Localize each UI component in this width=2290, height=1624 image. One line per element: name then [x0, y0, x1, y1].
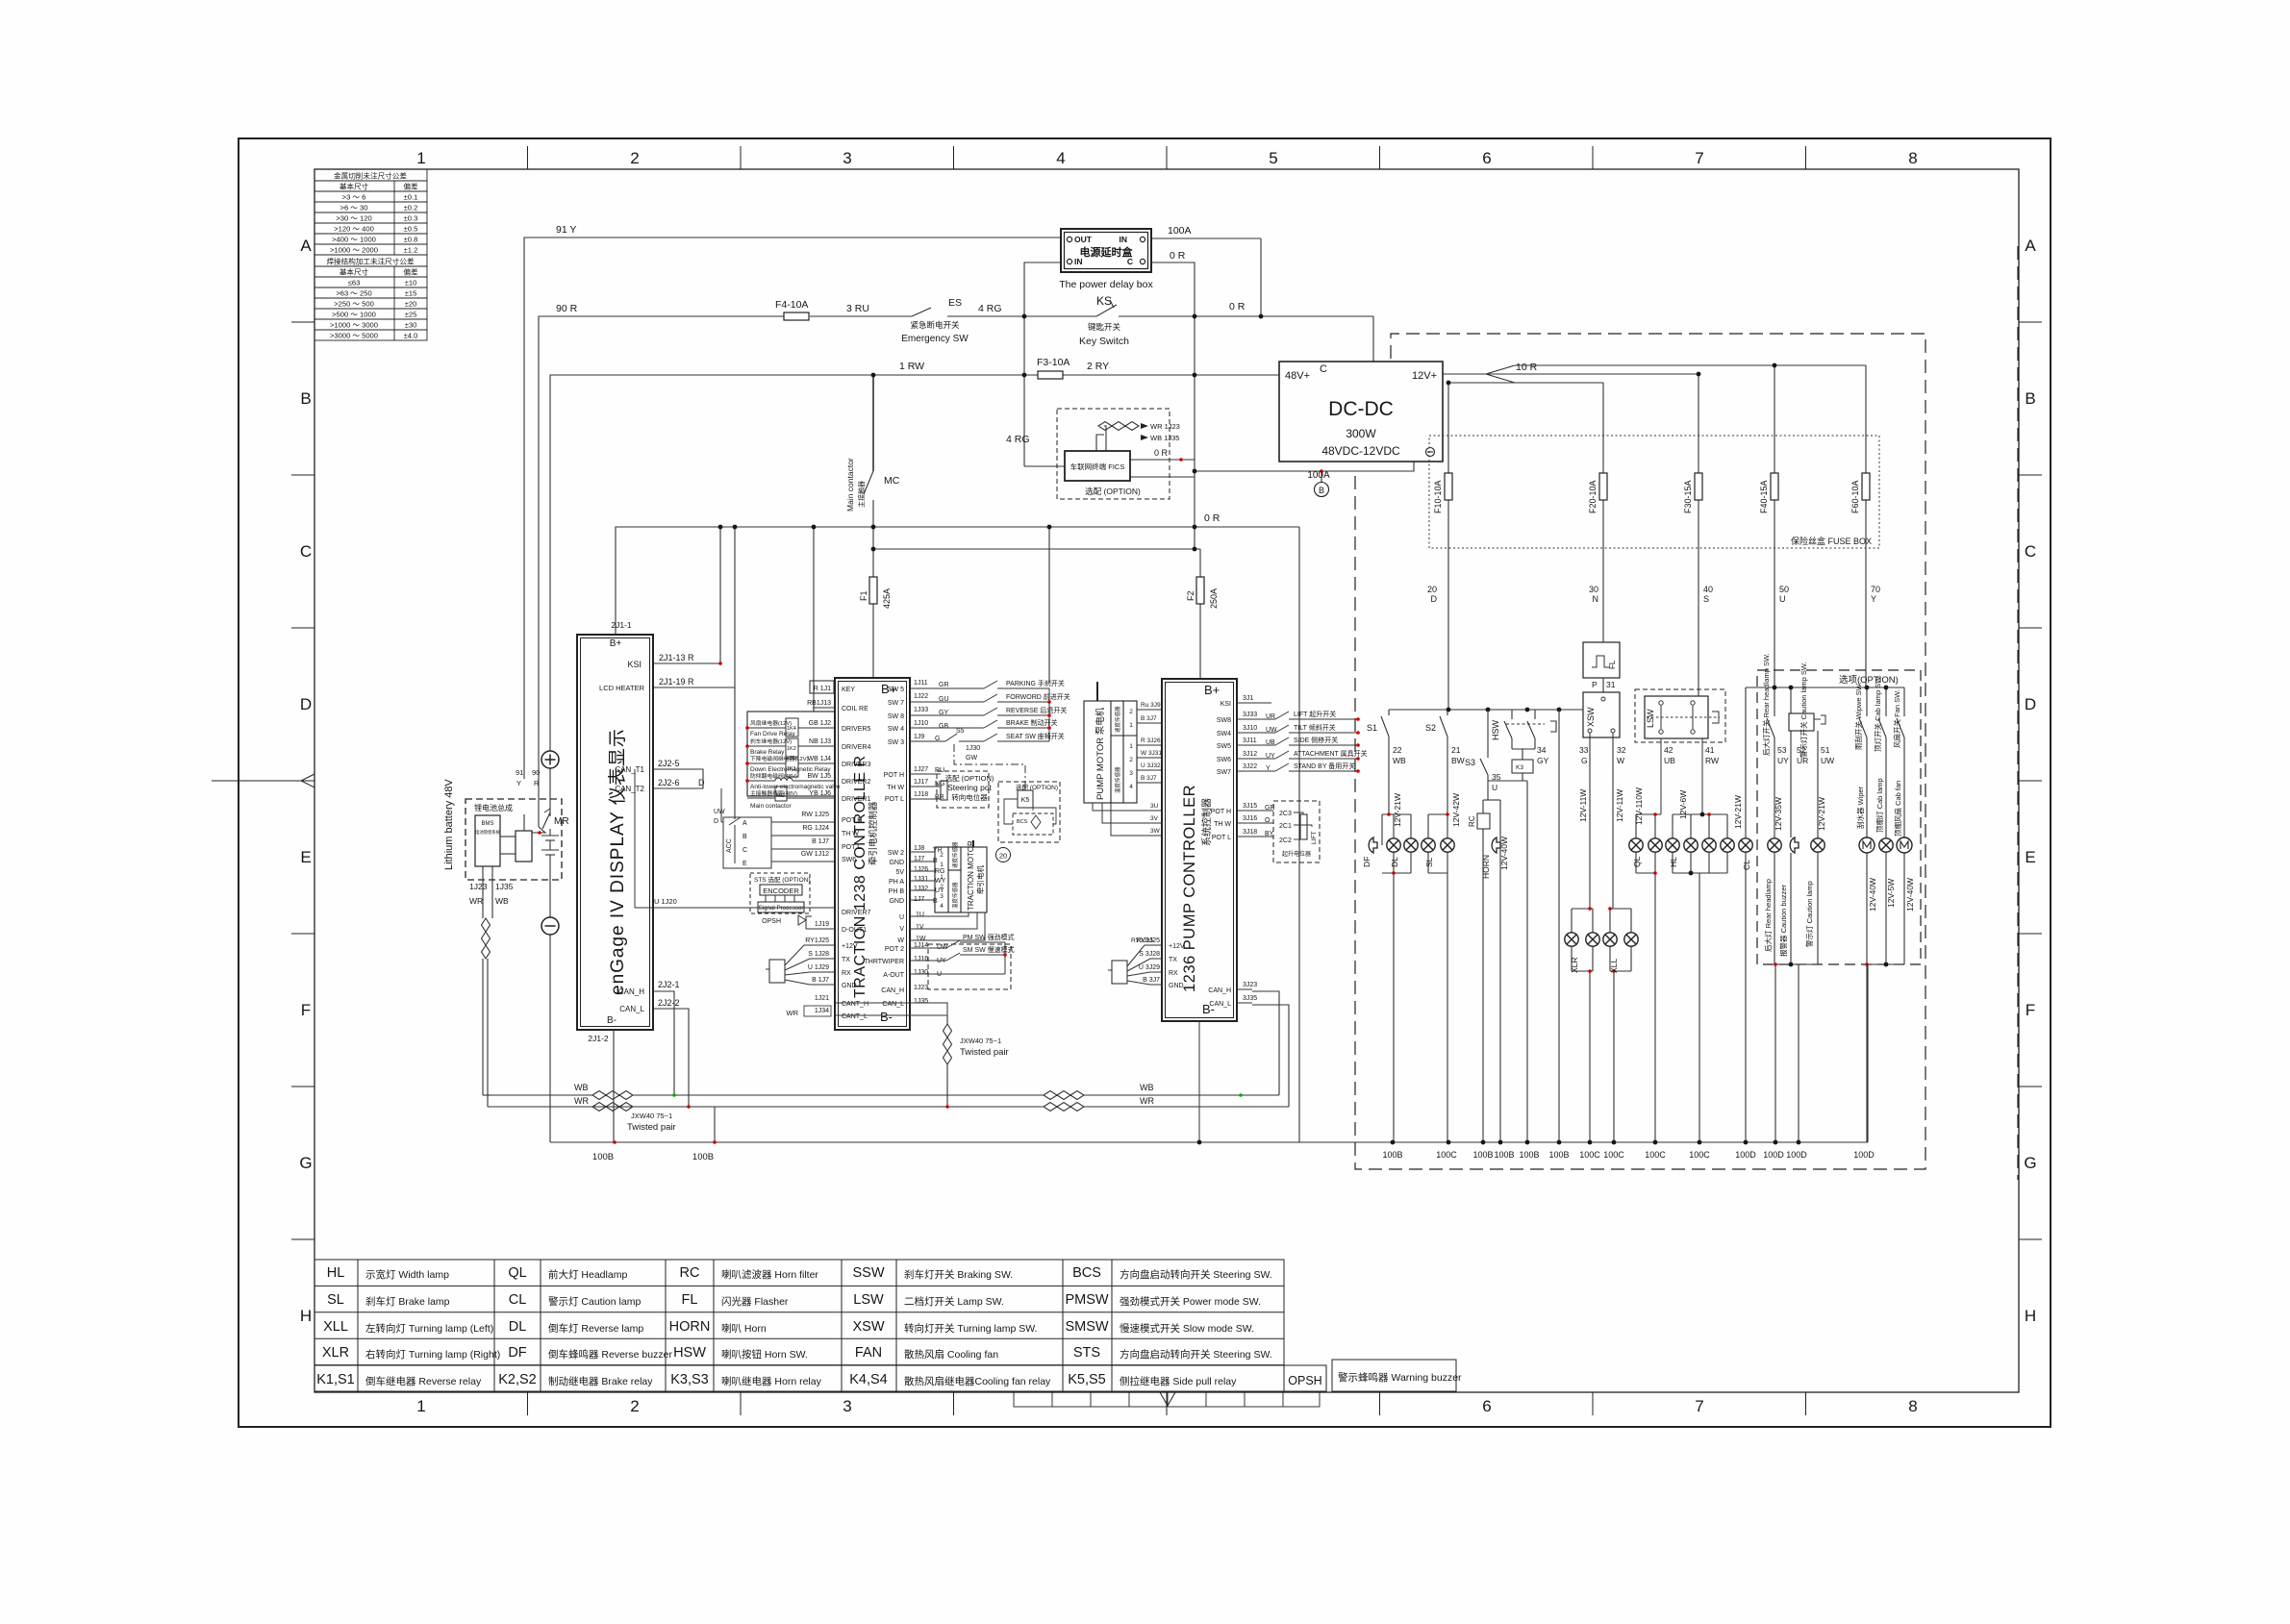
svg-text:D: D — [714, 818, 718, 825]
svg-text:后大灯开关 Rear headlamp SW.: 后大灯开关 Rear headlamp SW. — [1761, 653, 1771, 756]
svg-text:SL: SL — [327, 1292, 344, 1308]
svg-text:12V-40W: 12V-40W — [1905, 878, 1915, 912]
svg-text:DRIVER5: DRIVER5 — [842, 726, 870, 733]
svg-text:SW 4: SW 4 — [888, 726, 904, 733]
svg-text:ATTACHMENT 属具开关: ATTACHMENT 属具开关 — [1294, 749, 1368, 758]
svg-text:倒车灯 Reverse lamp: 倒车灯 Reverse lamp — [548, 1322, 643, 1335]
svg-text:选配 (OPTION): 选配 (OPTION) — [945, 773, 994, 783]
svg-text:GND: GND — [889, 860, 904, 866]
svg-text:1236 PUMP CONTROLLER: 1236 PUMP CONTROLLER — [1181, 785, 1198, 992]
svg-text:91: 91 — [516, 768, 523, 777]
svg-text:U 1J29: U 1J29 — [808, 964, 829, 971]
svg-text:XLR: XLR — [322, 1345, 349, 1361]
svg-text:1J33: 1J33 — [914, 707, 928, 713]
svg-text:12V-35W: 12V-35W — [1774, 797, 1783, 831]
svg-text:SW6: SW6 — [1217, 757, 1231, 763]
svg-text:主接触器: 主接触器 — [857, 481, 866, 508]
svg-text:DL: DL — [509, 1319, 527, 1335]
svg-text:报警器 Caution buzzer: 报警器 Caution buzzer — [1778, 884, 1788, 957]
svg-text:转向电位器: 转向电位器 — [951, 792, 988, 802]
svg-text:1: 1 — [416, 149, 425, 167]
svg-text:前大灯 Headlamp: 前大灯 Headlamp — [548, 1268, 627, 1281]
svg-text:CL: CL — [1742, 860, 1751, 870]
svg-text:91 Y: 91 Y — [556, 224, 576, 236]
svg-text:F3-10A: F3-10A — [1037, 357, 1070, 368]
svg-text:风扇开关 Fan SW.: 风扇开关 Fan SW. — [1892, 689, 1901, 748]
svg-text:Twisted pair: Twisted pair — [627, 1122, 676, 1133]
svg-text:D: D — [698, 778, 705, 787]
svg-text:CAN_T1: CAN_T1 — [615, 765, 644, 774]
svg-text:RW: RW — [1705, 756, 1719, 765]
svg-text:LIFT 起升开关: LIFT 起升开关 — [1294, 710, 1336, 718]
svg-text:1: 1 — [1129, 743, 1133, 750]
svg-text:3: 3 — [843, 1397, 851, 1415]
svg-text:HL: HL — [327, 1265, 345, 1281]
svg-text:SW 5: SW 5 — [888, 687, 904, 693]
svg-text:偏差: 偏差 — [403, 267, 418, 277]
svg-text:100B: 100B — [692, 1152, 714, 1162]
svg-text:K5: K5 — [1021, 797, 1030, 804]
svg-text:SW8: SW8 — [1217, 717, 1231, 724]
svg-text:K3,S3: K3,S3 — [670, 1372, 709, 1387]
svg-text:FAN: FAN — [855, 1345, 882, 1361]
svg-text:POT L: POT L — [842, 844, 861, 851]
svg-text:100C: 100C — [1436, 1150, 1457, 1160]
svg-text:HL: HL — [1669, 857, 1678, 867]
svg-text:100B: 100B — [592, 1152, 614, 1162]
svg-text:C: C — [300, 542, 312, 561]
svg-text:BW: BW — [1451, 756, 1465, 765]
svg-text:2 RY: 2 RY — [1087, 361, 1109, 372]
svg-text:POT H: POT H — [1211, 809, 1231, 815]
svg-text:2J2-2: 2J2-2 — [658, 998, 680, 1008]
svg-text:电池管理系统: 电池管理系统 — [475, 829, 500, 836]
svg-text:K4,S4: K4,S4 — [849, 1372, 888, 1387]
svg-text:2J1-13 R: 2J1-13 R — [659, 653, 694, 662]
svg-text:C: C — [1320, 363, 1327, 375]
svg-text:1J30: 1J30 — [966, 745, 980, 752]
svg-text:DRIVER4: DRIVER4 — [842, 744, 870, 751]
svg-text:±0.1: ±0.1 — [404, 193, 418, 202]
svg-text:MC: MC — [884, 475, 900, 487]
svg-text:2C1: 2C1 — [1279, 823, 1292, 830]
svg-text:U 1J20: U 1J20 — [654, 897, 677, 906]
svg-text:GW: GW — [966, 755, 977, 762]
svg-text:OPSH: OPSH — [1288, 1374, 1321, 1387]
svg-text:E: E — [2025, 848, 2035, 866]
svg-text:±0.5: ±0.5 — [404, 225, 418, 234]
svg-text:U: U — [1492, 783, 1497, 792]
svg-text:1J21: 1J21 — [815, 995, 829, 1002]
svg-text:1: 1 — [416, 1397, 425, 1415]
svg-text:KS: KS — [1096, 294, 1112, 308]
svg-text:DF: DF — [1362, 857, 1371, 867]
svg-text:N: N — [1593, 594, 1599, 604]
svg-text:F10-10A: F10-10A — [1433, 480, 1443, 513]
svg-text:GB 1J2: GB 1J2 — [809, 720, 831, 727]
svg-text:S5: S5 — [956, 728, 965, 735]
svg-text:100B: 100B — [1548, 1150, 1569, 1160]
svg-text:SIDE 侧移开关: SIDE 侧移开关 — [1294, 736, 1338, 744]
svg-text:转向灯开关 Turning lamp SW.: 转向灯开关 Turning lamp SW. — [904, 1322, 1037, 1335]
svg-text:SMSW: SMSW — [1065, 1319, 1108, 1335]
svg-text:喇叭按钮 Horn SW.: 喇叭按钮 Horn SW. — [721, 1348, 808, 1361]
svg-text:D-OUT1: D-OUT1 — [842, 927, 867, 934]
svg-text:IN: IN — [1120, 235, 1128, 244]
svg-text:LIFT: LIFT — [1311, 832, 1318, 844]
svg-text:SW 7: SW 7 — [888, 700, 904, 707]
svg-text:R: R — [534, 779, 540, 787]
svg-text:The power delay box: The power delay box — [1059, 279, 1153, 290]
svg-text:POT L: POT L — [885, 796, 904, 803]
svg-text:Ru 3J9: Ru 3J9 — [1141, 702, 1161, 709]
svg-text:12V-11W: 12V-11W — [1578, 789, 1588, 822]
svg-text:12V+: 12V+ — [1412, 370, 1437, 382]
svg-text:35: 35 — [1492, 772, 1501, 782]
svg-text:2: 2 — [1129, 709, 1133, 715]
svg-text:F2: F2 — [1186, 590, 1195, 601]
svg-text:Main contactor: Main contactor — [750, 803, 792, 810]
svg-text:4 RG: 4 RG — [1006, 434, 1030, 445]
svg-text:K3: K3 — [1516, 764, 1523, 771]
svg-text:SW 3: SW 3 — [888, 739, 904, 746]
svg-text:LCD HEATER: LCD HEATER — [599, 684, 645, 692]
svg-text:SW7: SW7 — [1217, 769, 1231, 776]
svg-text:UR: UR — [1797, 756, 1808, 765]
svg-text:1J26: 1J26 — [914, 866, 928, 873]
svg-text:Emergency SW: Emergency SW — [901, 334, 969, 344]
svg-text:+12V: +12V — [842, 943, 858, 950]
svg-text:WR: WR — [469, 896, 483, 906]
svg-text:1J10: 1J10 — [914, 720, 928, 727]
svg-text:S1: S1 — [1367, 723, 1377, 733]
svg-text:DF: DF — [508, 1345, 526, 1361]
svg-text:TILT 倾斜开关: TILT 倾斜开关 — [1294, 723, 1336, 732]
svg-text:BW 1J5: BW 1J5 — [807, 773, 831, 780]
svg-text:RC: RC — [680, 1265, 700, 1281]
svg-text:P: P — [1592, 680, 1598, 689]
svg-text:ENCODER: ENCODER — [763, 887, 799, 895]
svg-text:WB 1J4: WB 1J4 — [807, 756, 831, 762]
svg-text:刹车灯 Brake lamp: 刹车灯 Brake lamp — [365, 1295, 450, 1308]
svg-text:ACC: ACC — [726, 838, 733, 853]
svg-text:RC: RC — [1468, 815, 1476, 827]
svg-text:40: 40 — [1703, 585, 1713, 594]
svg-text:示宽灯 Width lamp: 示宽灯 Width lamp — [365, 1268, 449, 1281]
svg-text:CAN_H: CAN_H — [881, 987, 904, 994]
svg-text:SW 8: SW 8 — [888, 713, 904, 720]
svg-text:DRIVER2: DRIVER2 — [842, 779, 870, 786]
svg-text:WR: WR — [574, 1096, 589, 1106]
svg-text:B: B — [742, 834, 747, 840]
svg-text:刹车继电器(12V): 刹车继电器(12V) — [750, 737, 792, 745]
svg-text:散热风扇继电器Cooling fan relay: 散热风扇继电器Cooling fan relay — [904, 1375, 1051, 1387]
svg-text:1U: 1U — [916, 912, 924, 918]
svg-text:顶棚灯 Cab lamp: 顶棚灯 Cab lamp — [1875, 778, 1884, 833]
svg-text:F: F — [2026, 1001, 2035, 1019]
svg-text:8: 8 — [1908, 149, 1917, 167]
svg-text:SSW: SSW — [852, 1265, 884, 1281]
svg-text:1J23: 1J23 — [914, 985, 928, 991]
svg-text:3J35: 3J35 — [1243, 995, 1257, 1002]
svg-text:4: 4 — [1056, 149, 1065, 167]
svg-text:STAND BY 备用开关: STAND BY 备用开关 — [1294, 762, 1355, 770]
svg-text:制动继电器 Brake relay: 制动继电器 Brake relay — [548, 1375, 653, 1387]
svg-text:HSW: HSW — [673, 1345, 706, 1361]
svg-text:4: 4 — [1129, 784, 1133, 790]
svg-text:4 RG: 4 RG — [978, 303, 1002, 314]
svg-text:刮水器 Wiper: 刮水器 Wiper — [1855, 786, 1865, 829]
svg-text:41: 41 — [1705, 745, 1715, 755]
svg-text:3J15: 3J15 — [1243, 803, 1257, 810]
svg-text:雨刮开关 Wipwe SW.: 雨刮开关 Wipwe SW. — [1853, 683, 1863, 750]
svg-text:1K4: 1K4 — [787, 726, 796, 732]
svg-text:Twisted pair: Twisted pair — [960, 1047, 1009, 1058]
svg-text:散热风扇 Cooling fan: 散热风扇 Cooling fan — [904, 1348, 998, 1361]
svg-text:W: W — [1617, 756, 1624, 765]
svg-text:PM SW 强劲模式: PM SW 强劲模式 — [963, 933, 1015, 941]
svg-text:2J1-1: 2J1-1 — [611, 620, 632, 630]
svg-text:12V-5W: 12V-5W — [1886, 879, 1896, 908]
svg-text:300W: 300W — [1346, 427, 1376, 440]
svg-text:JXW40 75~1: JXW40 75~1 — [960, 1037, 1001, 1045]
svg-text:FL: FL — [1608, 660, 1617, 669]
svg-text:RW 1J25: RW 1J25 — [801, 812, 829, 818]
svg-text:3J33: 3J33 — [1243, 712, 1257, 718]
svg-text:5V: 5V — [895, 869, 904, 876]
svg-text:>63 ～ 250: >63 ～ 250 — [336, 289, 371, 298]
svg-text:100D: 100D — [1853, 1150, 1875, 1160]
svg-text:WB 1J35: WB 1J35 — [1150, 434, 1179, 442]
svg-text:10 R: 10 R — [1516, 362, 1538, 373]
svg-text:LSW: LSW — [1646, 709, 1655, 728]
svg-text:CAN_H: CAN_H — [618, 987, 644, 996]
svg-text:1J19: 1J19 — [815, 921, 829, 928]
svg-text:5: 5 — [1269, 149, 1277, 167]
svg-text:Lithium battery 48V: Lithium battery 48V — [443, 779, 455, 870]
svg-text:THRTWIPER: THRTWIPER — [865, 959, 904, 965]
svg-text:2J2-5: 2J2-5 — [658, 759, 680, 768]
svg-text:REVERSE 后退开关: REVERSE 后退开关 — [1006, 706, 1067, 714]
svg-text:70: 70 — [1871, 585, 1880, 594]
svg-text:1W: 1W — [916, 936, 926, 942]
svg-text:POT H: POT H — [842, 817, 862, 824]
svg-text:CANT_H: CANT_H — [842, 1001, 868, 1008]
svg-text:CAN_T2: CAN_T2 — [615, 785, 644, 793]
svg-text:紧急断电开关: 紧急断电开关 — [910, 320, 960, 330]
svg-text:BRAKE 制动开关: BRAKE 制动开关 — [1006, 718, 1058, 727]
svg-text:30: 30 — [1589, 585, 1598, 594]
svg-text:TX: TX — [1169, 957, 1177, 963]
svg-text:12V-21W: 12V-21W — [1733, 795, 1743, 829]
svg-text:1J17: 1J17 — [914, 779, 928, 786]
svg-text:B 1J7: B 1J7 — [812, 977, 829, 984]
svg-text:>30 ～ 120: >30 ～ 120 — [336, 214, 371, 223]
svg-text:DRIVER3: DRIVER3 — [842, 762, 870, 768]
svg-text:W: W — [897, 937, 904, 944]
svg-text:±0.2: ±0.2 — [404, 204, 418, 212]
svg-text:QL: QL — [508, 1265, 526, 1281]
svg-text:90: 90 — [532, 768, 540, 777]
svg-text:42: 42 — [1664, 745, 1673, 755]
svg-text:K2,S2: K2,S2 — [498, 1372, 537, 1387]
svg-text:刹车灯开关 Braking SW.: 刹车灯开关 Braking SW. — [904, 1268, 1013, 1281]
svg-text:MC: MC — [776, 793, 785, 799]
svg-text:强劲模式开关 Power mode SW.: 强劲模式开关 Power mode SW. — [1120, 1295, 1261, 1308]
svg-text:倒车继电器 Reverse relay: 倒车继电器 Reverse relay — [365, 1375, 482, 1387]
svg-text:B+: B+ — [610, 638, 622, 649]
svg-text:1V: 1V — [916, 924, 924, 931]
svg-text:偏差: 偏差 — [403, 182, 418, 191]
svg-text:XLL: XLL — [1609, 959, 1619, 973]
svg-text:3J12: 3J12 — [1243, 751, 1257, 758]
svg-text:1J9: 1J9 — [914, 734, 924, 740]
svg-text:警示灯 Caution lamp: 警示灯 Caution lamp — [1804, 881, 1814, 947]
svg-text:S 3J28: S 3J28 — [1139, 951, 1160, 958]
svg-text:K5,S5: K5,S5 — [1068, 1372, 1106, 1387]
svg-text:F30-15A: F30-15A — [1683, 480, 1693, 513]
svg-text:V: V — [899, 926, 904, 933]
svg-text:HORN: HORN — [1481, 855, 1491, 879]
svg-text:顶棚风扇 Cab fan: 顶棚风扇 Cab fan — [1893, 781, 1902, 837]
svg-text:1J8: 1J8 — [914, 845, 924, 852]
svg-text:ES: ES — [948, 297, 962, 309]
svg-text:CAN_L: CAN_L — [619, 1005, 644, 1013]
svg-text:U 3J29: U 3J29 — [1139, 964, 1160, 971]
svg-text:侧拉继电器 Side pull relay: 侧拉继电器 Side pull relay — [1120, 1375, 1237, 1387]
svg-text:B 3J7: B 3J7 — [1141, 715, 1157, 722]
svg-text:0 R: 0 R — [1154, 448, 1169, 458]
svg-text:1J11: 1J11 — [914, 680, 928, 687]
svg-text:CAN_L: CAN_L — [882, 1001, 904, 1008]
svg-text:DRIVER7: DRIVER7 — [842, 910, 870, 916]
svg-text:2: 2 — [630, 1397, 639, 1415]
svg-text:SL: SL — [1424, 857, 1434, 867]
svg-text:PH B: PH B — [889, 888, 905, 895]
svg-text:>3000 ～ 5000: >3000 ～ 5000 — [330, 332, 378, 340]
svg-text:倒车蜂鸣器 Reverse buzzer: 倒车蜂鸣器 Reverse buzzer — [548, 1348, 672, 1361]
svg-text:TH W: TH W — [842, 831, 859, 837]
svg-text:±25: ±25 — [405, 311, 417, 319]
svg-text:20: 20 — [1427, 585, 1437, 594]
svg-text:±1.2: ±1.2 — [404, 246, 418, 255]
svg-text:S: S — [1703, 594, 1709, 604]
svg-text:WR 1J23: WR 1J23 — [1150, 422, 1180, 431]
svg-text:2: 2 — [1129, 757, 1133, 763]
svg-text:LSW: LSW — [853, 1292, 884, 1308]
svg-text:GY: GY — [1537, 756, 1549, 765]
svg-text:风扇继电器(12V): 风扇继电器(12V) — [750, 719, 792, 727]
svg-text:HSW: HSW — [1491, 719, 1500, 740]
svg-text:锂电池总成: 锂电池总成 — [474, 803, 513, 812]
svg-text:100D: 100D — [1735, 1150, 1756, 1160]
svg-text:>400 ～ 1000: >400 ～ 1000 — [332, 236, 376, 244]
svg-text:CAN_L: CAN_L — [1209, 1001, 1231, 1008]
svg-text:2J2-1: 2J2-1 — [658, 980, 680, 989]
svg-text:B-: B- — [607, 1015, 617, 1026]
svg-text:B: B — [300, 389, 311, 408]
svg-text:基本尺寸: 基本尺寸 — [340, 182, 369, 191]
svg-text:D: D — [300, 695, 312, 713]
svg-text:3J18: 3J18 — [1243, 829, 1257, 836]
svg-text:21: 21 — [1451, 745, 1461, 755]
svg-text:2J1-2: 2J1-2 — [588, 1034, 609, 1043]
svg-text:F: F — [301, 1001, 311, 1019]
svg-text:车联网终端 FICS: 车联网终端 FICS — [1070, 462, 1125, 471]
svg-text:100B: 100B — [1494, 1150, 1514, 1160]
svg-text:3J10: 3J10 — [1243, 725, 1257, 732]
svg-text:闪光器 Flasher: 闪光器 Flasher — [721, 1295, 789, 1308]
svg-text:>250 ～ 500: >250 ～ 500 — [334, 300, 374, 309]
svg-text:12V-40W: 12V-40W — [1499, 837, 1509, 870]
svg-text:TH W: TH W — [887, 785, 904, 791]
svg-text:WB: WB — [1140, 1083, 1154, 1092]
svg-text:CL: CL — [509, 1292, 527, 1308]
svg-text:A: A — [2025, 237, 2036, 255]
svg-text:TX: TX — [842, 957, 850, 963]
svg-text:KEY: KEY — [842, 687, 855, 693]
svg-text:方向盘启动转向开关 Steering SW.: 方向盘启动转向开关 Steering SW. — [1120, 1348, 1272, 1361]
svg-text:警示灯开关 Caution lamp SW.: 警示灯开关 Caution lamp SW. — [1799, 662, 1808, 758]
svg-text:3: 3 — [940, 893, 944, 900]
svg-text:7: 7 — [1695, 1397, 1703, 1415]
svg-text:>1000 ～ 2000: >1000 ～ 2000 — [330, 246, 378, 255]
svg-text:喇叭继电器 Horn relay: 喇叭继电器 Horn relay — [721, 1375, 822, 1387]
svg-text:RY3J25: RY3J25 — [1131, 937, 1153, 944]
svg-text:3: 3 — [1129, 770, 1133, 777]
svg-text:7: 7 — [1695, 149, 1703, 167]
svg-text:OUT: OUT — [1074, 235, 1093, 244]
svg-text:Anti-lower electromagnetic val: Anti-lower electromagnetic valve — [750, 784, 841, 790]
svg-text:1J27: 1J27 — [914, 766, 928, 773]
svg-text:PMSW: PMSW — [1065, 1292, 1108, 1308]
svg-text:STS: STS — [1073, 1345, 1100, 1361]
svg-text:SW4: SW4 — [1217, 731, 1231, 737]
svg-text:Y: Y — [516, 779, 521, 787]
svg-text:B 1J7: B 1J7 — [812, 838, 829, 845]
svg-text:QL: QL — [1632, 856, 1642, 867]
svg-text:100B: 100B — [1519, 1150, 1539, 1160]
svg-text:F60-10A: F60-10A — [1850, 480, 1860, 513]
svg-text:速度传感器: 速度传感器 — [1114, 706, 1121, 733]
svg-text:方向盘启动转向开关 Steering SW.: 方向盘启动转向开关 Steering SW. — [1120, 1268, 1272, 1281]
svg-text:W 3J31: W 3J31 — [1141, 750, 1162, 757]
svg-text:±0.8: ±0.8 — [404, 236, 418, 244]
svg-text:C: C — [2025, 542, 2036, 561]
svg-text:1J31: 1J31 — [914, 876, 928, 883]
svg-text:90 R: 90 R — [556, 303, 578, 314]
svg-text:2: 2 — [940, 884, 944, 890]
svg-text:U 3J32: U 3J32 — [1141, 762, 1161, 769]
svg-text:100D: 100D — [1786, 1150, 1807, 1160]
svg-text:3J1: 3J1 — [1243, 695, 1253, 702]
svg-text:Main contactor: Main contactor — [845, 458, 855, 512]
svg-text:SEAT SW 座椅开关: SEAT SW 座椅开关 — [1006, 732, 1065, 740]
svg-text:D: D — [1431, 594, 1438, 604]
svg-text:KSI: KSI — [627, 660, 642, 669]
svg-text:>6 ～ 30: >6 ～ 30 — [340, 204, 368, 212]
svg-text:100B: 100B — [1382, 1150, 1402, 1160]
svg-text:51: 51 — [1821, 745, 1830, 755]
svg-text:WB: WB — [1393, 756, 1406, 765]
svg-text:OPSH: OPSH — [762, 918, 781, 925]
svg-text:WR: WR — [787, 1009, 799, 1017]
svg-text:喇叭滤波器 Horn filter: 喇叭滤波器 Horn filter — [721, 1268, 818, 1281]
svg-text:R 1J1: R 1J1 — [814, 686, 831, 692]
svg-text:B: B — [1319, 486, 1324, 495]
svg-text:顶灯开关 Cab lamp SW.: 顶灯开关 Cab lamp SW. — [1873, 675, 1882, 752]
svg-text:BMS: BMS — [481, 821, 493, 827]
